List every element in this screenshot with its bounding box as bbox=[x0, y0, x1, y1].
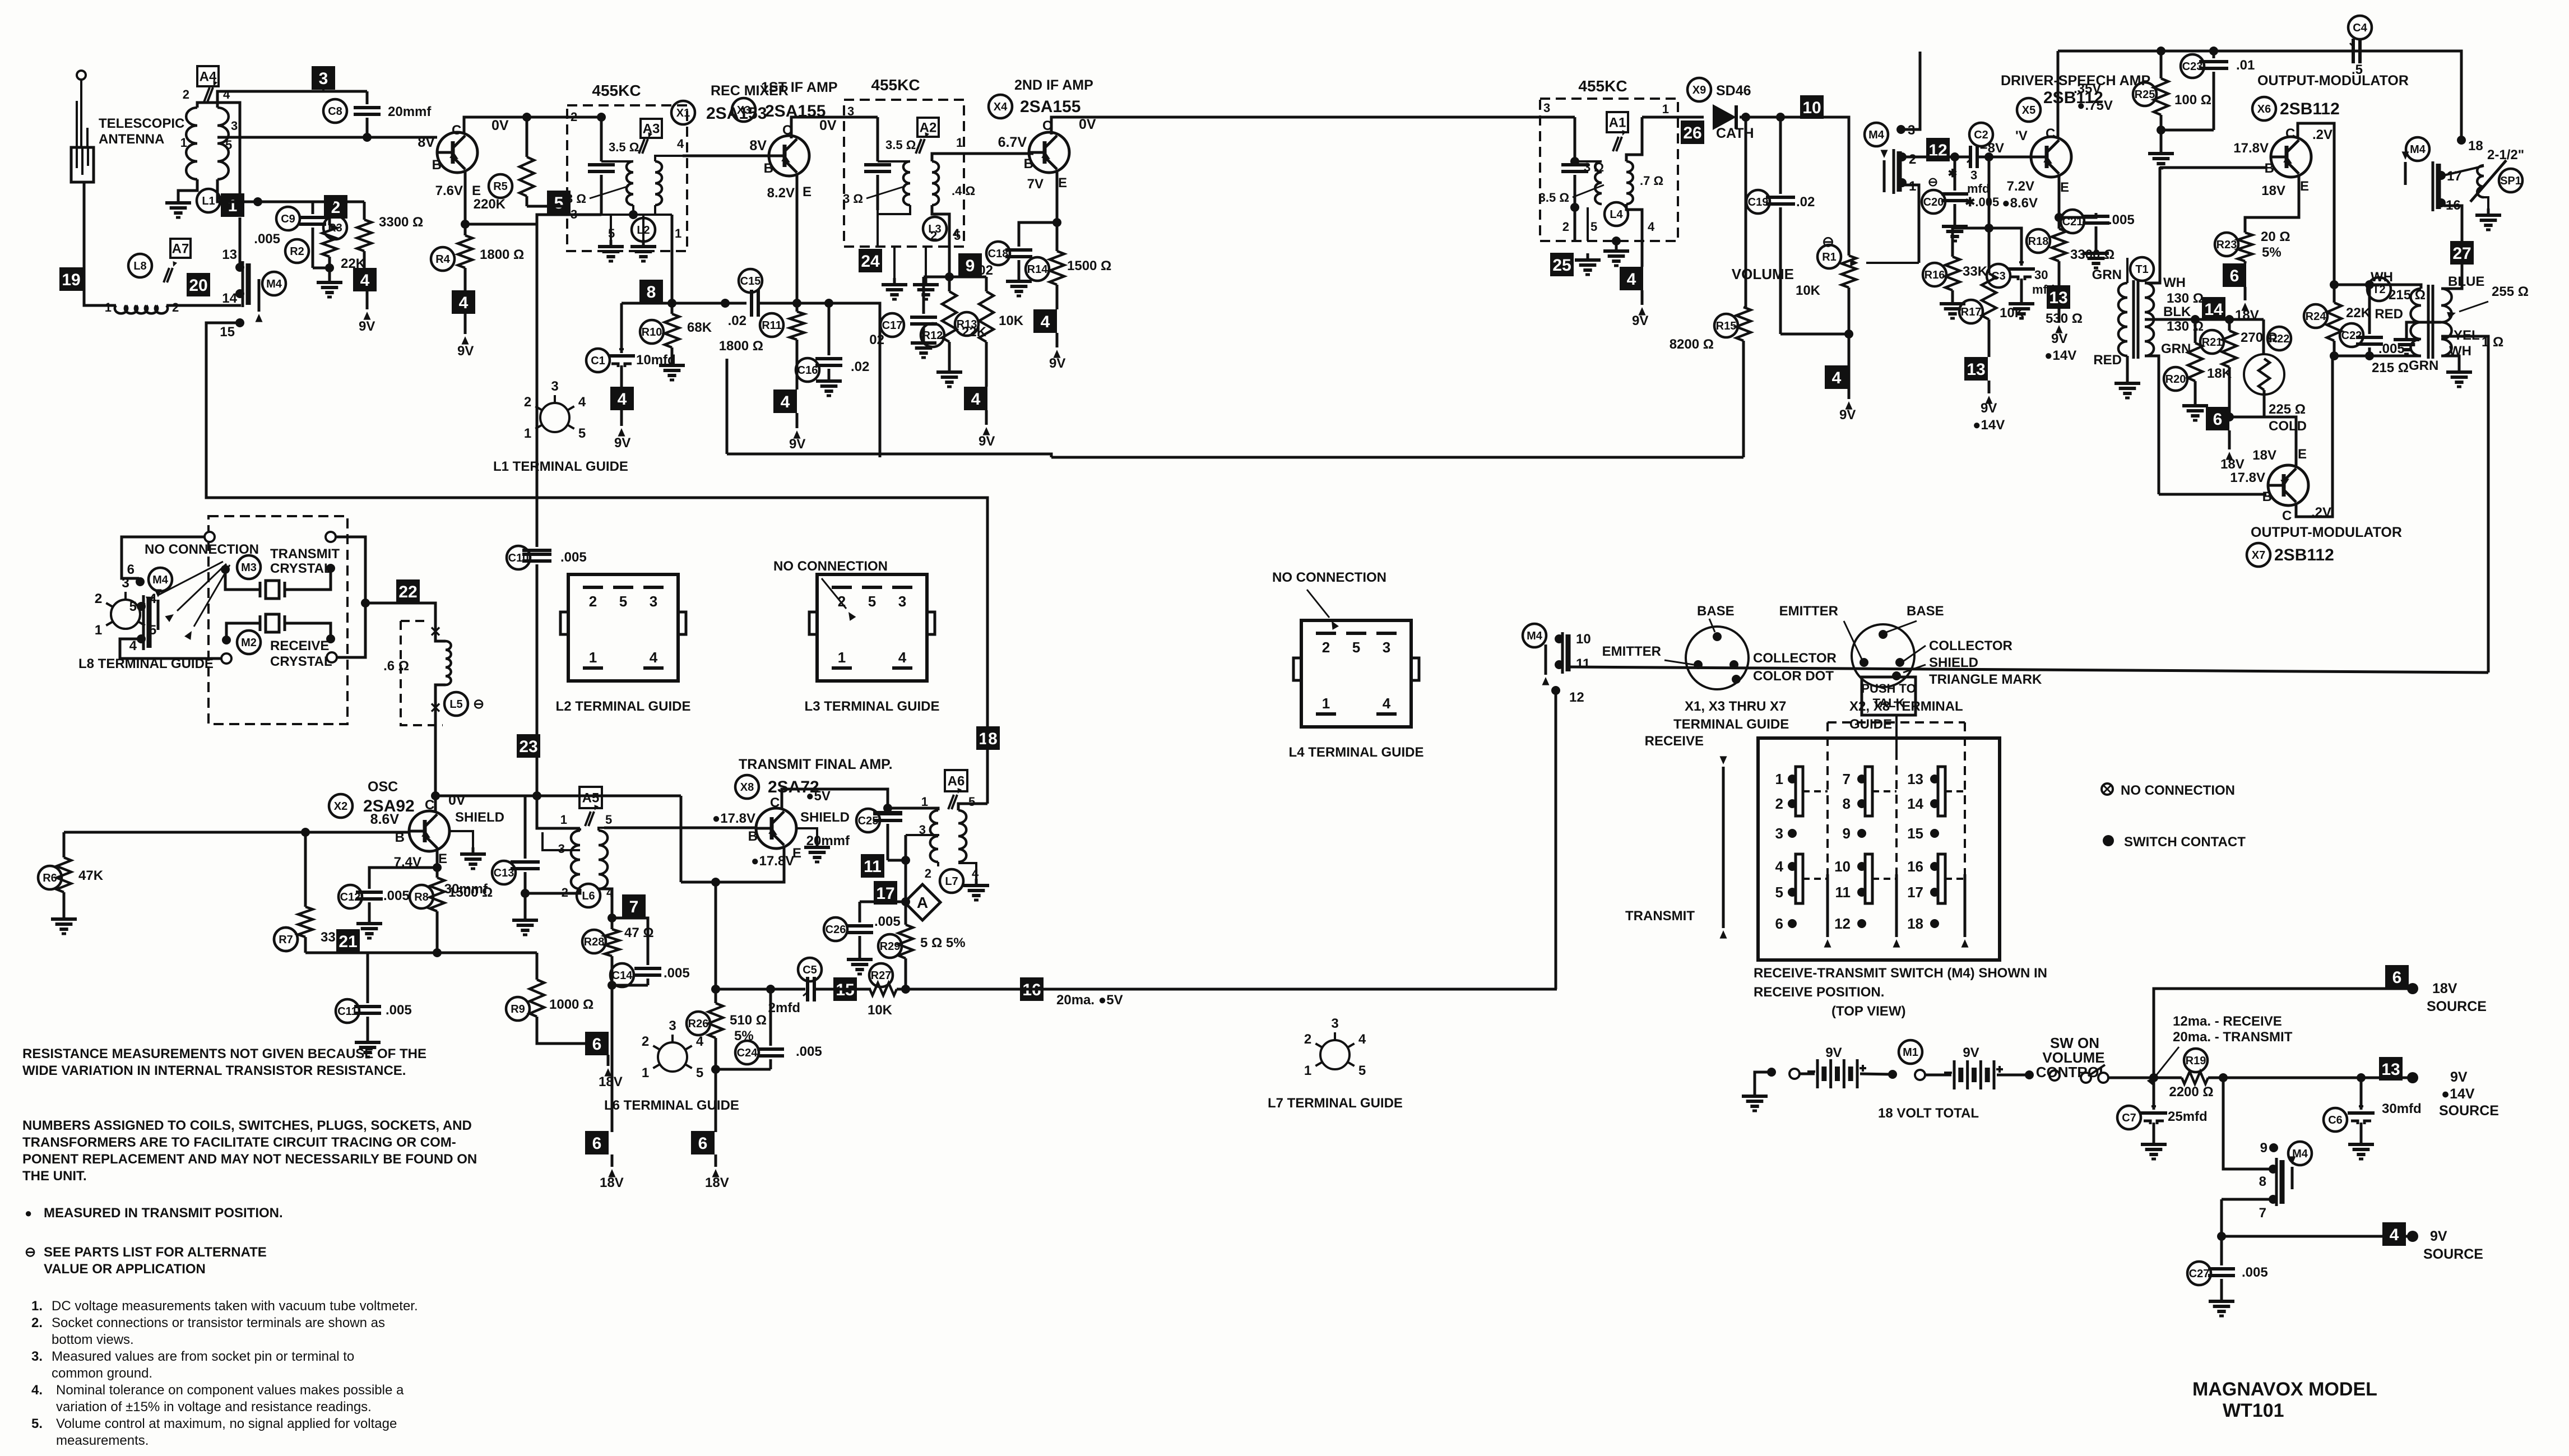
X3 ref bbox=[732, 98, 755, 122]
svg-text:30: 30 bbox=[2034, 268, 2048, 282]
wire contact3 up bbox=[1901, 52, 1920, 129]
M4 ref antenna jack bbox=[262, 272, 286, 295]
switch bar lower bbox=[1865, 854, 1872, 903]
capacitor inside L2 bbox=[588, 163, 615, 166]
T1 secondary bottom to X7 base bbox=[2145, 356, 2159, 494]
svg-text:4: 4 bbox=[1383, 695, 1391, 712]
capacitor C16 .02 bbox=[796, 358, 819, 382]
svg-text:.005: .005 bbox=[2108, 212, 2135, 228]
svg-text:NO CONNECTION: NO CONNECTION bbox=[773, 559, 888, 574]
svg-text:8.6V: 8.6V bbox=[370, 812, 400, 827]
svg-text:GRN: GRN bbox=[2161, 341, 2191, 356]
svg-text:R12: R12 bbox=[922, 330, 943, 342]
X6 ref bbox=[2252, 97, 2276, 120]
svg-text:C15: C15 bbox=[740, 275, 761, 288]
svg-text:C5: C5 bbox=[803, 964, 817, 976]
L4 bottom wires bbox=[1626, 204, 1642, 267]
svg-text:1: 1 bbox=[1322, 695, 1330, 712]
svg-text:TRANSMIT: TRANSMIT bbox=[270, 546, 340, 562]
ground R16 bbox=[1951, 297, 1954, 304]
wire node15 bus2 to transmit section bbox=[206, 323, 987, 726]
svg-text:3: 3 bbox=[669, 1018, 676, 1033]
svg-text:1: 1 bbox=[105, 300, 112, 314]
svg-text:R28: R28 bbox=[584, 936, 605, 948]
ground C6 bbox=[2360, 1138, 2363, 1144]
svg-text:13: 13 bbox=[1967, 360, 1985, 379]
svg-text:4.: 4. bbox=[31, 1383, 43, 1398]
resistor R29 5ohm 5pct bbox=[878, 934, 902, 958]
L7 ref bbox=[940, 869, 963, 893]
L8 terminal guide bbox=[111, 600, 140, 629]
svg-text:X4: X4 bbox=[994, 101, 1008, 113]
arrow 9V L4 bbox=[1641, 290, 1644, 305]
svg-text:GUIDE: GUIDE bbox=[1849, 717, 1892, 732]
svg-text:14: 14 bbox=[222, 291, 237, 306]
wire to box6 18V transmit bbox=[611, 985, 614, 1132]
svg-text:17: 17 bbox=[876, 884, 894, 903]
wire box18 column bbox=[986, 726, 989, 804]
X7 emitter up bbox=[2295, 448, 2298, 466]
wire L2 pin1 down bbox=[671, 215, 674, 303]
svg-text:5: 5 bbox=[868, 593, 876, 610]
svg-text:13: 13 bbox=[2381, 1060, 2400, 1079]
svg-text:R7: R7 bbox=[279, 934, 293, 946]
svg-text:WH: WH bbox=[2371, 270, 2393, 285]
svg-text:6.7V: 6.7V bbox=[998, 135, 1027, 150]
svg-text:9: 9 bbox=[1843, 825, 1851, 842]
svg-text:3: 3 bbox=[847, 104, 854, 118]
svg-text:33K: 33K bbox=[1963, 264, 1988, 279]
svg-text:22: 22 bbox=[398, 583, 417, 601]
svg-text:TALK: TALK bbox=[1872, 696, 1904, 710]
svg-text:1.: 1. bbox=[31, 1299, 43, 1314]
svg-text:C: C bbox=[1042, 118, 1052, 133]
svg-text:A: A bbox=[917, 894, 928, 911]
L1 ref bbox=[197, 189, 220, 212]
bus after C5 bbox=[814, 988, 871, 991]
svg-text:EMITTER: EMITTER bbox=[1602, 644, 1661, 659]
X6 emitter down to R23 bbox=[2245, 176, 2299, 233]
svg-text:20 Ω: 20 Ω bbox=[2261, 229, 2290, 244]
svg-text:R18: R18 bbox=[2028, 235, 2049, 248]
svg-text:SHIELD: SHIELD bbox=[455, 810, 504, 825]
svg-text:455KC: 455KC bbox=[1578, 77, 1627, 95]
resistor R20 18K bbox=[2164, 367, 2187, 391]
circuitrace 16 bbox=[1020, 977, 1044, 1001]
X4 emitter down bbox=[1056, 171, 1059, 222]
svg-text:10K: 10K bbox=[999, 313, 1024, 328]
svg-text:TRIANGLE MARK: TRIANGLE MARK bbox=[1929, 672, 2042, 687]
capacitor C3 30mfd bbox=[1987, 264, 2010, 288]
svg-text:BLK: BLK bbox=[2163, 304, 2191, 319]
svg-text:GRN: GRN bbox=[2409, 358, 2438, 373]
trimmer A7 bbox=[170, 239, 191, 258]
svg-text:SWITCH CONTACT: SWITCH CONTACT bbox=[2124, 834, 2246, 850]
svg-text:1: 1 bbox=[675, 226, 681, 240]
svg-text:3: 3 bbox=[551, 379, 558, 394]
resistor R11 1800ohm bbox=[760, 313, 783, 337]
jack M4 mic bars bbox=[1893, 149, 1895, 194]
wire M3 left contact to jack6 bbox=[122, 537, 205, 578]
capacitor C23 .01 bbox=[2181, 54, 2204, 78]
svg-text:4: 4 bbox=[2390, 1226, 2399, 1244]
wire node to L5 bbox=[365, 603, 435, 620]
svg-text:COLLECTOR: COLLECTOR bbox=[1753, 651, 1837, 666]
ground R12 bbox=[948, 365, 951, 372]
wire C2 right branch down to R16 R17 bbox=[1988, 157, 1991, 228]
T2 secondary coil bbox=[2441, 289, 2452, 356]
svg-text:EMITTER: EMITTER bbox=[1779, 604, 1838, 619]
svg-text:9: 9 bbox=[2260, 1140, 2267, 1156]
wire box8 row y541 bbox=[622, 302, 746, 305]
X6 collector up to T2 node bbox=[2298, 123, 2334, 286]
crystal jack arrow bbox=[157, 600, 160, 630]
svg-text:C4: C4 bbox=[2353, 22, 2367, 34]
svg-text:T1: T1 bbox=[2135, 263, 2148, 276]
svg-text:2SA155: 2SA155 bbox=[1020, 98, 1081, 116]
svg-text:2: 2 bbox=[1322, 639, 1330, 656]
svg-text:E: E bbox=[803, 184, 811, 200]
crystal jack bars bbox=[142, 595, 145, 650]
resistor R9 1000ohm bbox=[506, 997, 530, 1021]
trimmer A5 bbox=[585, 812, 591, 826]
M3 top contacts bbox=[205, 532, 215, 542]
svg-text:R17: R17 bbox=[1961, 306, 1982, 318]
jack arrow mic bbox=[1883, 160, 1886, 192]
svg-text:11: 11 bbox=[1576, 656, 1590, 671]
switch dash connectors bbox=[1803, 790, 1828, 792]
wire box1 to L1 primary top bbox=[197, 103, 240, 193]
svg-text:R19: R19 bbox=[2186, 1055, 2206, 1067]
capacitor C1 10mfd electrolytic bbox=[586, 349, 610, 372]
svg-text:100 Ω: 100 Ω bbox=[2174, 92, 2211, 108]
circuitrace 22 bbox=[396, 579, 420, 603]
crystal M2 bbox=[259, 615, 262, 631]
svg-text:.5: .5 bbox=[2352, 62, 2363, 77]
circuitrace 5 bbox=[547, 191, 571, 214]
svg-text:E: E bbox=[2298, 447, 2307, 462]
ground R25 bbox=[2160, 147, 2163, 154]
L7 primary coil bbox=[888, 808, 938, 810]
M2 right contact bbox=[327, 652, 337, 662]
M3 ref bbox=[237, 555, 261, 579]
L7 secondary bottom ground bbox=[958, 863, 976, 879]
wire emitter branch down to bus bbox=[715, 882, 717, 989]
ground C11 bbox=[367, 1036, 369, 1042]
wire to 9V source row bbox=[2223, 1077, 2410, 1079]
switch bar lower bbox=[1796, 854, 1803, 903]
svg-text:M4: M4 bbox=[1868, 129, 1885, 141]
svg-text:B: B bbox=[764, 161, 773, 176]
thermistor R22 225ohm COLD bbox=[2267, 327, 2291, 350]
svg-text:C: C bbox=[425, 797, 434, 813]
X1 X3 thru X7 terminal guide bbox=[1686, 627, 1749, 689]
svg-text:1: 1 bbox=[95, 623, 102, 638]
svg-text:68K: 68K bbox=[687, 320, 712, 335]
L3 terminal guide bbox=[817, 574, 927, 681]
svg-text:17.8V: 17.8V bbox=[2230, 470, 2265, 485]
svg-text:R21: R21 bbox=[2202, 336, 2223, 349]
svg-text:0V: 0V bbox=[819, 118, 837, 133]
svg-text:C20: C20 bbox=[1923, 196, 1944, 208]
svg-text:OSC: OSC bbox=[368, 779, 398, 795]
wire osc collector down to X8 emitter row bbox=[680, 796, 683, 882]
svg-text:ANTENNA: ANTENNA bbox=[99, 132, 164, 147]
wire R9 to box6 bbox=[537, 1038, 608, 1044]
svg-text:C24: C24 bbox=[737, 1047, 758, 1059]
svg-text:L5: L5 bbox=[449, 698, 462, 711]
dashed lines switch bbox=[1828, 721, 1965, 724]
svg-text:10: 10 bbox=[1802, 99, 1821, 117]
L6 secondary bottom to box7 bbox=[599, 889, 612, 918]
circuitrace 9 bbox=[958, 253, 982, 277]
svg-text:3300 Ω: 3300 Ω bbox=[2070, 247, 2114, 262]
svg-text:●: ● bbox=[25, 1206, 32, 1220]
resistor R7 33K bbox=[274, 928, 298, 951]
svg-text:2: 2 bbox=[589, 593, 597, 610]
wire x958 to L6 primary top bbox=[537, 796, 580, 828]
svg-text:16: 16 bbox=[1907, 858, 1923, 875]
X7 ref bbox=[2247, 543, 2270, 567]
svg-text:7.2V: 7.2V bbox=[2007, 179, 2034, 194]
svg-text:E: E bbox=[472, 183, 481, 198]
svg-text:.005: .005 bbox=[560, 550, 587, 565]
svg-text:2SB112: 2SB112 bbox=[2274, 546, 2334, 564]
svg-text:20mmf: 20mmf bbox=[806, 833, 850, 848]
svg-text:A5: A5 bbox=[582, 791, 600, 806]
circuitrace 25 bbox=[1550, 253, 1574, 276]
transformer T1 core bbox=[2132, 280, 2135, 359]
dashed can L4 455KC bbox=[1540, 99, 1678, 241]
jack M4 contacts 13 14 bbox=[242, 261, 244, 307]
svg-text:2SA155: 2SA155 bbox=[765, 102, 826, 120]
wire BLK tap right bbox=[2195, 318, 2264, 321]
circuitrace 4 below R11 bbox=[773, 389, 797, 413]
resistor R24 22K bbox=[2304, 304, 2327, 328]
svg-text:Nominal tolerance on component: Nominal tolerance on component values ma… bbox=[56, 1383, 404, 1398]
svg-text:7: 7 bbox=[1843, 771, 1851, 787]
A3 ref bbox=[641, 119, 662, 138]
wire R26 join down bbox=[715, 1069, 717, 1132]
svg-text:0V: 0V bbox=[491, 118, 509, 133]
svg-text:3: 3 bbox=[1383, 639, 1390, 656]
svg-text:530 Ω: 530 Ω bbox=[2046, 311, 2083, 326]
L8 terminal guide symbol bbox=[111, 600, 140, 629]
svg-text:SOURCE: SOURCE bbox=[2423, 1246, 2483, 1262]
dashed box crystals bbox=[208, 516, 347, 724]
resistor R8 1500ohm bbox=[410, 885, 433, 908]
A5 ref bbox=[579, 787, 602, 808]
circuitrace 20 bbox=[187, 273, 210, 296]
svg-text:L4: L4 bbox=[1610, 208, 1623, 221]
svg-text:9V: 9V bbox=[979, 434, 995, 449]
circuitrace 14 bbox=[2202, 297, 2225, 321]
wire L4 pin1 to diode bbox=[1642, 116, 1704, 119]
svg-text:Socket connections or transist: Socket connections or transistor termina… bbox=[52, 1315, 385, 1330]
wire contact4 to M2 row bbox=[120, 639, 226, 659]
wire switch to R19 bbox=[2108, 1077, 2154, 1079]
receive transmit arrow bbox=[1722, 773, 1725, 928]
M4 ref center jack bbox=[1523, 624, 1546, 647]
svg-text:20mmf: 20mmf bbox=[388, 104, 432, 119]
wire L3 pin4 down to bias row bbox=[932, 205, 949, 277]
speaker jack bars bbox=[2432, 161, 2434, 211]
svg-text:4: 4 bbox=[223, 87, 230, 101]
wire C2 to X5 base bbox=[1977, 156, 2031, 159]
A diamond bbox=[905, 884, 940, 920]
svg-text:RED: RED bbox=[2375, 307, 2403, 322]
arrow 9V R18 bbox=[2058, 309, 2061, 323]
svg-text:THE UNIT.: THE UNIT. bbox=[22, 1168, 87, 1184]
capacitor C24 .005 parallel bbox=[735, 1041, 759, 1064]
switch column arrows bbox=[1826, 874, 1829, 937]
svg-text:C: C bbox=[770, 795, 780, 810]
bus transmit y1765 bbox=[716, 988, 805, 991]
wire contact12 down to bus16 bbox=[1555, 690, 1557, 989]
svg-text:.02: .02 bbox=[851, 359, 869, 374]
svg-text:●5V: ●5V bbox=[806, 789, 831, 804]
svg-text:2: 2 bbox=[183, 87, 189, 101]
jack arrow speaker bbox=[2404, 162, 2407, 185]
svg-text:13: 13 bbox=[222, 247, 237, 262]
svg-text:C: C bbox=[2046, 126, 2055, 141]
circuitrace 6 below R9 bbox=[585, 1032, 609, 1055]
bus to box16 and beyond bbox=[897, 988, 1557, 991]
svg-text:4: 4 bbox=[650, 649, 658, 666]
switch blade bbox=[2081, 1073, 2091, 1083]
ground L4 center tap bbox=[1612, 237, 1621, 245]
resistor R17 10K bbox=[1959, 300, 1983, 323]
wire emitter node to L2 bottom bus bbox=[465, 223, 537, 226]
L2 secondary coil bbox=[655, 161, 662, 205]
L4 primary coil bbox=[1575, 160, 1602, 163]
T2 primary top wire bbox=[2334, 285, 2421, 289]
wire L1 secondary region down (x958) bbox=[536, 215, 539, 547]
svg-text:common ground.: common ground. bbox=[52, 1366, 152, 1381]
svg-text:21: 21 bbox=[338, 933, 357, 951]
resistor R19 2200ohm bbox=[2184, 1049, 2208, 1072]
M4 ref mic jack bbox=[1865, 123, 1888, 146]
svg-text:13: 13 bbox=[2049, 289, 2067, 307]
resistor R27 10K bbox=[869, 963, 893, 987]
svg-text:R16: R16 bbox=[1925, 269, 1945, 281]
svg-text:1: 1 bbox=[524, 426, 531, 441]
ground T1 bottom bbox=[2126, 356, 2129, 377]
trimmer A3 arrow bbox=[639, 139, 644, 154]
wire contact17 to speaker bbox=[2443, 166, 2484, 175]
transformer T2 core bbox=[2427, 285, 2430, 359]
wire L3 internal left bbox=[877, 117, 879, 161]
svg-text:3: 3 bbox=[898, 593, 906, 610]
resistor R13 10K bbox=[955, 312, 979, 336]
svg-text:455KC: 455KC bbox=[592, 82, 641, 99]
capacitor C8 20mmf bbox=[323, 99, 347, 123]
circuitrace 15 bbox=[833, 977, 857, 1001]
L3 ref bbox=[923, 217, 947, 240]
svg-text:C: C bbox=[782, 123, 792, 138]
jack contact 18 bbox=[2457, 136, 2466, 145]
svg-text:2ND IF AMP: 2ND IF AMP bbox=[1014, 77, 1093, 93]
L4 secondary coil bbox=[1626, 161, 1633, 204]
svg-text:20: 20 bbox=[189, 276, 207, 295]
wire C13 bottom to L6 pin2 bbox=[525, 889, 580, 893]
X8 emitter wire bbox=[681, 847, 784, 882]
telescopic antenna bbox=[77, 71, 86, 80]
circuitrace 6 T1 area bbox=[2206, 407, 2229, 430]
svg-text:0V: 0V bbox=[1079, 117, 1096, 132]
wire bias row y494 bbox=[924, 276, 986, 279]
svg-text:.005: .005 bbox=[664, 966, 690, 981]
ground RED tap bbox=[2405, 333, 2408, 340]
svg-text:2: 2 bbox=[524, 395, 531, 410]
wire L5 to X2 collector bbox=[434, 725, 437, 811]
ground L3 center bbox=[925, 247, 927, 278]
arrow 9V 14V R17 bbox=[1988, 381, 1991, 393]
switch bar upper bbox=[1938, 767, 1945, 816]
svg-text:.005: .005 bbox=[386, 1003, 412, 1018]
svg-text:R8: R8 bbox=[414, 891, 429, 903]
X8 collector loop to C25 bbox=[782, 789, 888, 809]
svg-text:X2, X8 TERMINAL: X2, X8 TERMINAL bbox=[1849, 699, 1963, 714]
svg-text:R13: R13 bbox=[957, 318, 977, 331]
svg-text:M3: M3 bbox=[241, 562, 257, 574]
svg-text:6: 6 bbox=[1775, 915, 1783, 932]
svg-text:3.5 Ω: 3.5 Ω bbox=[609, 140, 639, 154]
svg-text:A3: A3 bbox=[643, 122, 660, 137]
svg-text:2: 2 bbox=[95, 591, 102, 606]
legend switch contact bbox=[2103, 835, 2114, 846]
svg-text:BASE: BASE bbox=[1907, 604, 1944, 619]
X5 ref bbox=[2017, 98, 2041, 122]
svg-text:8.2V: 8.2V bbox=[767, 186, 795, 201]
svg-text:E: E bbox=[1058, 175, 1067, 191]
X2 collector node wire right bbox=[435, 795, 681, 797]
svg-text:18V: 18V bbox=[2252, 448, 2276, 463]
wire R2 C9 join ground bbox=[313, 268, 330, 276]
capacitor C2 3mfd bbox=[1969, 123, 1993, 146]
SP1 ref bbox=[2499, 169, 2522, 192]
svg-text:4: 4 bbox=[578, 395, 586, 410]
svg-text:510 Ω: 510 Ω bbox=[730, 1013, 767, 1028]
svg-text:.005: .005 bbox=[796, 1044, 822, 1059]
svg-text:⊖: ⊖ bbox=[1928, 175, 1938, 189]
svg-text:C16: C16 bbox=[797, 364, 818, 377]
resistor R18 3300ohm bbox=[2027, 229, 2050, 253]
wire C23 bottom to R25 bbox=[2161, 129, 2214, 132]
wire contact7 loop bbox=[2222, 1198, 2273, 1201]
X2 X8 terminal guide bbox=[1852, 624, 1914, 687]
T1 secondary top to X6 base bbox=[2145, 168, 2160, 283]
L3 secondary coil bbox=[932, 161, 939, 205]
transistor X5 2SB112 bbox=[2031, 137, 2071, 177]
svg-text:7.6V: 7.6V bbox=[435, 183, 463, 198]
svg-text:WT101: WT101 bbox=[2223, 1400, 2284, 1421]
wire box17 row bbox=[860, 901, 905, 903]
coil L8 bbox=[115, 305, 168, 313]
L3 primary coil bbox=[878, 160, 910, 163]
svg-text:2: 2 bbox=[1562, 220, 1569, 234]
svg-text:C8: C8 bbox=[328, 105, 342, 118]
svg-text:4: 4 bbox=[971, 390, 981, 409]
X1 emitter resistor chain bbox=[464, 171, 467, 224]
svg-text:1: 1 bbox=[838, 649, 846, 666]
circuitrace 24 bbox=[859, 249, 882, 272]
wire up to 18V source bbox=[2154, 989, 2410, 1078]
svg-text:2: 2 bbox=[172, 300, 179, 314]
svg-text:9V: 9V bbox=[1963, 1045, 1979, 1060]
svg-text:3 Ω: 3 Ω bbox=[843, 192, 863, 206]
svg-text:9V: 9V bbox=[1049, 356, 1065, 371]
